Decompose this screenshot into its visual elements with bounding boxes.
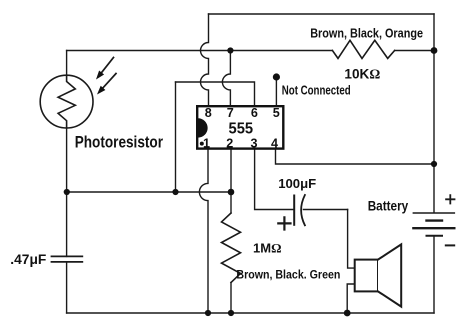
- battery minus sign: [446, 244, 454, 246]
- wire pin6 horizontal at y=82: [176, 82, 255, 105]
- wire trigger horizontal y=192: [67, 191, 231, 193]
- battery B1 plate long top: [413, 212, 454, 214]
- wire pin1 vertical with hop at y=192: [199, 150, 208, 313]
- junction node pin2/1M: [228, 189, 235, 196]
- photoresistor arrow 1 head: [96, 71, 104, 80]
- junction node 1M/bottom rail: [228, 310, 234, 316]
- wire 1M resistor bottom to rail: [230, 283, 232, 314]
- U1 notch semicircle: [198, 118, 208, 137]
- wire pin4 reset to battery rail: [276, 150, 435, 164]
- wire battery negative drop: [433, 236, 435, 313]
- svg-text:1: 1: [203, 136, 210, 150]
- junction node pin7/10K: [227, 47, 233, 53]
- svg-text:Not Connected: Not Connected: [282, 83, 351, 98]
- speaker driver rectangle: [355, 260, 378, 292]
- wire 100uF cap to speaker: [303, 209, 347, 211]
- wire .47uF cap to bottom rail: [66, 262, 68, 313]
- speaker cone: [378, 244, 401, 306]
- wire down to speaker top terminal: [348, 210, 355, 269]
- svg-text:5: 5: [273, 106, 280, 120]
- U1 pin1 index dot: [200, 142, 204, 146]
- capacitor C2 plus sign: [278, 217, 290, 229]
- junction node pin4/rail: [431, 161, 437, 167]
- wire right rail top (to battery +): [433, 14, 435, 213]
- svg-text:Photoresistor: Photoresistor: [75, 134, 164, 152]
- wire pin5 stub: [275, 79, 277, 105]
- op-amp/timer U1 555 body: [197, 106, 283, 148]
- battery B1 plate short: [427, 219, 443, 221]
- wire pin8 vertical with two hops: [201, 14, 209, 105]
- wire pin2 vertical to 1M resistor: [230, 150, 232, 213]
- wire top rail (pin8 to battery+): [209, 13, 435, 15]
- resistor R2 1M zigzag: [222, 213, 241, 283]
- photoresistor zigzag: [58, 75, 75, 128]
- svg-text:3: 3: [250, 136, 257, 150]
- wire y=192 down to .47uF cap: [66, 192, 68, 256]
- node Not Connected dot: [273, 73, 280, 80]
- svg-text:10KΩ: 10KΩ: [344, 67, 380, 82]
- capacitor C1 .47uF plates: [52, 256, 83, 262]
- wire pin3 output to 100uF cap: [255, 150, 294, 210]
- battery B1 plate short bottom: [427, 235, 443, 237]
- wire pin7 vertical with hop: [222, 51, 230, 106]
- battery plus sign: [446, 195, 454, 203]
- svg-text:Brown, Black. Green: Brown, Black. Green: [236, 267, 340, 281]
- photoresistor light arrow 2 shaft: [103, 74, 116, 88]
- svg-text:1MΩ: 1MΩ: [253, 241, 281, 256]
- svg-text:6: 6: [251, 106, 258, 120]
- wire V+ horizontal at y=50.5 (photoresistor to 10K): [67, 50, 434, 52]
- svg-text:.47μF: .47μF: [10, 252, 46, 267]
- svg-text:8: 8: [205, 106, 212, 120]
- junction node 10K/battery rail: [431, 47, 438, 54]
- svg-text:Battery: Battery: [368, 198, 409, 213]
- capacitor C2 100uF straight plate: [293, 196, 295, 225]
- svg-text:2: 2: [226, 136, 233, 150]
- capacitor C2 100uF curved plate: [301, 195, 305, 225]
- resistor R1 10K zigzag: [332, 40, 394, 58]
- junction node pin1/bottom rail: [205, 310, 211, 316]
- wire photoresistor top drop: [66, 51, 68, 76]
- photoresistor light arrow 1 shaft: [102, 58, 114, 73]
- svg-text:100μF: 100μF: [278, 176, 316, 191]
- battery B1 plate long: [413, 227, 454, 229]
- svg-text:4: 4: [271, 136, 278, 150]
- wire pin6-to-trigger vertical x=175.5: [175, 82, 177, 192]
- photoresistor body circle: [40, 75, 93, 128]
- junction node speaker/bottom rail: [344, 310, 351, 317]
- wire photoresistor bottom to y=192: [66, 128, 68, 192]
- wire bottom rail: [67, 312, 434, 314]
- junction node x175/trigger: [172, 189, 178, 195]
- svg-text:Brown, Black, Orange: Brown, Black, Orange: [310, 26, 423, 41]
- svg-text:555: 555: [229, 121, 254, 138]
- svg-text:7: 7: [227, 106, 234, 120]
- junction node left trigger: [64, 189, 70, 195]
- photoresistor arrow 2 head: [97, 86, 105, 95]
- wire speaker bottom terminal to bottom rail: [347, 284, 354, 313]
